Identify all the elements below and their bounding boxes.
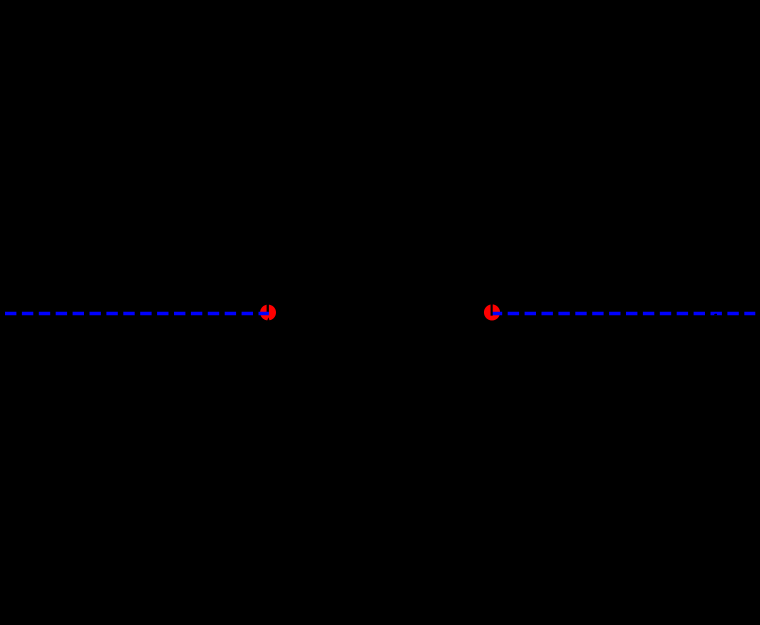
current arrowhead on left wire (pointing up) — [267, 317, 270, 322]
current arrowhead on axis (small black mark over right dash) — [714, 314, 717, 316]
wire right vertical (upper half, over node B) — [491, 152, 493, 316]
wire bottom horizontal (loop bottom side) — [268, 472, 492, 474]
wire left vertical (lower half, under node A) — [267, 313, 269, 474]
wire left vertical (upper half, over node A) — [267, 152, 269, 313]
node A (left pivot) — [260, 305, 276, 321]
current arrowhead on right wire (pointing down) — [489, 301, 494, 307]
axis of rotation: dashed line, right segment — [491, 312, 756, 315]
axis of rotation: dashed line, left segment — [5, 312, 269, 315]
wire right vertical (lower half, under node B) — [490, 316, 492, 473]
wire top horizontal (loop top side) — [268, 151, 492, 153]
node B (right pivot) — [484, 304, 500, 320]
